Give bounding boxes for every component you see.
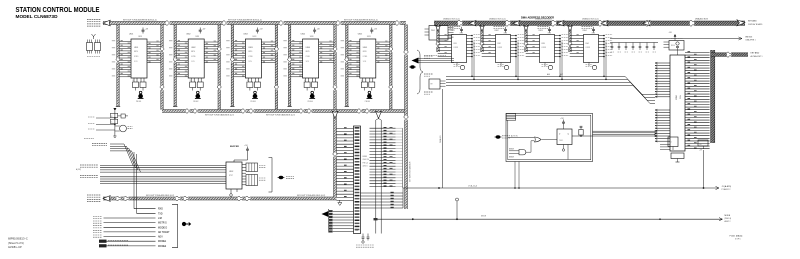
svg-text:U92: U92 <box>498 43 501 45</box>
svg-text:KEY BUTTONS ADDRESS BUS (0-2): KEY BUTTONS ADDRESS BUS (0-2) <box>344 19 378 22</box>
svg-text:8870: 8870 <box>248 51 252 53</box>
svg-text:ADV: ADV <box>158 236 163 239</box>
svg-text:U804: U804 <box>306 47 310 49</box>
svg-text:LS138: LS138 <box>454 47 459 49</box>
svg-text:P/N 5-0: P/N 5-0 <box>363 162 369 164</box>
svg-text:U903: U903 <box>539 30 543 32</box>
svg-text:U901: U901 <box>451 30 455 32</box>
svg-text:U805: U805 <box>363 47 367 49</box>
svg-text:PB 804: PB 804 <box>308 101 313 103</box>
svg-text:DMA XFER 1: DMA XFER 1 <box>746 39 756 42</box>
svg-text:74LS: 74LS <box>504 33 508 35</box>
svg-text:KEY AND: KEY AND <box>748 20 757 23</box>
svg-text:DMA ADD BUS (0-2): DMA ADD BUS (0-2) <box>582 18 599 21</box>
svg-text:4070 D: 4070 D <box>363 166 369 168</box>
svg-text:U802: U802 <box>186 34 190 36</box>
svg-text:BUFFER: BUFFER <box>230 146 239 148</box>
svg-text:PB 803: PB 803 <box>250 101 255 103</box>
svg-text:KEY BUTTONS DATA BUS: KEY BUTTONS DATA BUS <box>409 161 412 182</box>
svg-text:(Sheet 5 of 9): (Sheet 5 of 9) <box>8 241 24 245</box>
svg-text:U803: U803 <box>248 47 252 49</box>
svg-text:KEY AND: KEY AND <box>751 52 760 55</box>
svg-text:JT (A-22-2): JT (A-22-2) <box>468 184 477 187</box>
svg-text:LS138: LS138 <box>542 47 547 49</box>
svg-text:KEY BUTTONS DATA BUS (0-7): KEY BUTTONS DATA BUS (0-7) <box>266 113 295 116</box>
svg-text:3 OF 5: 3 OF 5 <box>735 239 741 241</box>
svg-text:68P81065E13–C: 68P81065E13–C <box>8 237 28 241</box>
svg-text:STATION CONTROL MODULE: STATION CONTROL MODULE <box>16 5 100 14</box>
svg-text:DMA ADD BUS: DMA ADD BUS <box>695 18 709 21</box>
svg-text:KEY BUTTONS ADD BUS (0-2): KEY BUTTONS ADD BUS (0-2) <box>297 194 325 197</box>
svg-text:8870: 8870 <box>191 51 195 53</box>
svg-text:(P801-3): (P801-3) <box>725 218 732 220</box>
svg-text:MODE: MODE <box>509 149 514 151</box>
svg-text:16R8: 16R8 <box>195 36 199 38</box>
svg-text:LS138: LS138 <box>586 47 591 49</box>
svg-text:MODE: MODE <box>725 215 731 217</box>
svg-text:P901: P901 <box>679 95 681 99</box>
svg-text:ASSY 2: ASSY 2 <box>725 220 731 223</box>
svg-text:RXD: RXD <box>158 209 163 211</box>
svg-text:MODE D: MODE D <box>158 227 168 229</box>
svg-text:U904: U904 <box>583 30 587 32</box>
svg-text:U816: U816 <box>363 156 367 158</box>
svg-text:74LS: 74LS <box>460 33 464 35</box>
svg-text:16R8: 16R8 <box>252 36 256 38</box>
svg-text:A (RX): A (RX) <box>76 168 81 171</box>
svg-text:U93: U93 <box>542 43 545 45</box>
svg-text:MSTR S: MSTR S <box>158 223 167 225</box>
svg-text:U802: U802 <box>191 47 195 49</box>
svg-text:DMA ADD BUS (0-2): DMA ADD BUS (0-2) <box>489 18 506 21</box>
svg-text:DMA ADD BUS (0-2): DMA ADD BUS (0-2) <box>535 18 552 21</box>
svg-text:A (TX R): A (TX R) <box>511 135 518 138</box>
svg-text:PB 801: PB 801 <box>136 101 141 103</box>
svg-text:74LS: 74LS <box>592 33 596 35</box>
svg-text:KEY BUTTONS DATA BUS (0-7): KEY BUTTONS DATA BUS (0-7) <box>205 113 234 116</box>
svg-text:U804: U804 <box>301 34 305 36</box>
svg-text:16R8: 16R8 <box>138 36 142 38</box>
svg-text:AD TRGST: AD TRGST <box>158 231 170 234</box>
svg-text:16R8: 16R8 <box>310 36 314 38</box>
svg-text:MODE2: MODE2 <box>158 246 167 248</box>
svg-text:7474: 7474 <box>559 140 563 142</box>
svg-text:8T97: 8T97 <box>229 175 233 177</box>
svg-text:MODEL CLN6873D: MODEL CLN6873D <box>16 14 58 19</box>
svg-text:A06: A06 <box>547 73 550 76</box>
svg-text:L/M: L/M <box>158 218 162 220</box>
svg-text:U904: U904 <box>675 95 677 100</box>
svg-text:R9: R9 <box>431 84 433 86</box>
svg-text:8870: 8870 <box>306 51 310 53</box>
svg-text:74LS: 74LS <box>548 33 552 35</box>
svg-text:8870: 8870 <box>363 51 367 53</box>
svg-text:TXD: TXD <box>158 213 163 215</box>
svg-text:DMA WR: DMA WR <box>439 135 442 143</box>
svg-text:U801: U801 <box>134 47 138 49</box>
svg-text:U803: U803 <box>243 34 247 36</box>
svg-text:PB 805: PB 805 <box>365 101 370 103</box>
svg-text:KEY BUTTONS ADDRESS BUS (0-2): KEY BUTTONS ADDRESS BUS (0-2) <box>228 19 262 22</box>
svg-text:U902: U902 <box>495 30 499 32</box>
svg-text:U801: U801 <box>129 34 133 36</box>
svg-text:P802: P802 <box>431 30 435 32</box>
svg-text:LS138: LS138 <box>498 47 503 49</box>
svg-text:ALPHA DISP 1: ALPHA DISP 1 <box>751 55 763 58</box>
svg-text:BW 313: BW 313 <box>746 37 753 39</box>
svg-text:P1001 (BALA): P1001 (BALA) <box>730 234 743 237</box>
svg-text:PB 802: PB 802 <box>193 101 198 103</box>
svg-text:16R8: 16R8 <box>367 36 371 38</box>
svg-text:R9: R9 <box>700 144 702 146</box>
svg-text:P1 ASSY 2: P1 ASSY 2 <box>722 188 731 191</box>
svg-text:J1 (A-E29): J1 (A-E29) <box>722 185 732 188</box>
svg-text:U94: U94 <box>586 43 589 45</box>
svg-text:KEY BUTTONS ADD BUS (0-2): KEY BUTTONS ADD BUS (0-2) <box>146 194 174 197</box>
svg-text:CHN 700: CHN 700 <box>363 159 370 161</box>
svg-text:MODE: MODE <box>509 157 514 159</box>
svg-text:A07: A07 <box>560 73 563 76</box>
svg-text:U805: U805 <box>358 34 362 36</box>
svg-text:MODE1: MODE1 <box>158 241 167 243</box>
svg-text:MODE: MODE <box>481 215 487 217</box>
svg-text:R910: R910 <box>671 45 675 47</box>
svg-text:KEY BUTTONS ADDRESS BUS (0-2): KEY BUTTONS ADDRESS BUS (0-2) <box>123 19 157 22</box>
svg-text:DISPLAY BOARD: DISPLAY BOARD <box>748 23 763 26</box>
svg-text:4/23/81–UP: 4/23/81–UP <box>8 245 22 249</box>
svg-text:8870: 8870 <box>134 51 138 53</box>
svg-text:U91: U91 <box>454 43 457 45</box>
svg-text:DMA ADD BUS (0-2): DMA ADD BUS (0-2) <box>443 18 460 21</box>
svg-text:U802: U802 <box>229 171 233 173</box>
